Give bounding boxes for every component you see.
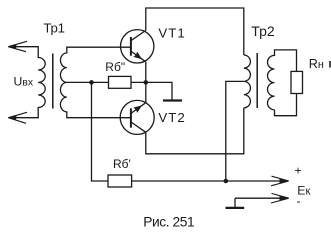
- svg-text:Тр1: Тр1: [43, 21, 64, 36]
- wire: -Ek lead: [235, 198, 287, 207]
- input arrow Uvx bottom: [8, 112, 27, 123]
- resistor Rb': [108, 175, 132, 187]
- svg-text:Uвх: Uвх: [14, 75, 34, 89]
- wire: VT1 emitter lead to emitter node: [145, 62, 147, 83]
- node: emitter junction: [144, 80, 149, 85]
- node: +Ek rail junction: [224, 179, 229, 184]
- transformer Tp1 secondary winding (wires to VT1 and VT2 bases): [60, 47, 130, 118]
- wire: Tp1 center tap: [67, 81, 109, 83]
- transformer Tp2 primary winding: [244, 55, 251, 108]
- transformer Tp2 core: [256, 53, 258, 108]
- svg-text:Rб': Rб': [113, 157, 131, 171]
- wire: VT2 emitter lead to emitter node: [145, 82, 147, 102]
- node: bias divider junction: [89, 80, 94, 85]
- svg-text:Тр2: Тр2: [251, 23, 275, 39]
- svg-text:Rн: Rн: [309, 57, 324, 71]
- transformer Tp1 primary winding: [8, 47, 45, 118]
- wire: Tp2 center tap to +Ek rail: [226, 81, 244, 181]
- transformer Tp2 secondary winding and load loop: [268, 50, 297, 116]
- transistor VT1: [121, 30, 154, 63]
- svg-text:+: +: [295, 164, 302, 178]
- label Rn: [309, 57, 330, 71]
- resistor Rb": [109, 76, 132, 88]
- wire: VT2 collector to Tp2 primary bottom: [146, 108, 244, 154]
- svg-text:Рис. 251: Рис. 251: [143, 214, 194, 229]
- transformer Tp1 core: [52, 54, 54, 109]
- svg-text:VT1: VT1: [158, 26, 185, 41]
- input arrow Uvx top: [8, 41, 27, 51]
- transistor VT2: [120, 100, 154, 134]
- svg-text:Rб": Rб": [105, 60, 125, 74]
- arrow +Ek: [271, 176, 289, 186]
- svg-text:VT2: VT2: [158, 110, 185, 125]
- wire: top rail, VT1 collector to Tp2 primary top: [146, 8, 244, 55]
- ground (-Ek): [226, 207, 245, 209]
- wire: +Ek rail: [132, 180, 287, 182]
- svg-text:-: -: [297, 194, 301, 208]
- arrow -Ek: [271, 193, 289, 203]
- wire: Rb" to emitter node and ground stub: [131, 82, 172, 99]
- resistor Rn: [291, 71, 303, 93]
- ground (emitters): [163, 99, 182, 101]
- wire: bias junction down to Rb' row: [92, 82, 109, 181]
